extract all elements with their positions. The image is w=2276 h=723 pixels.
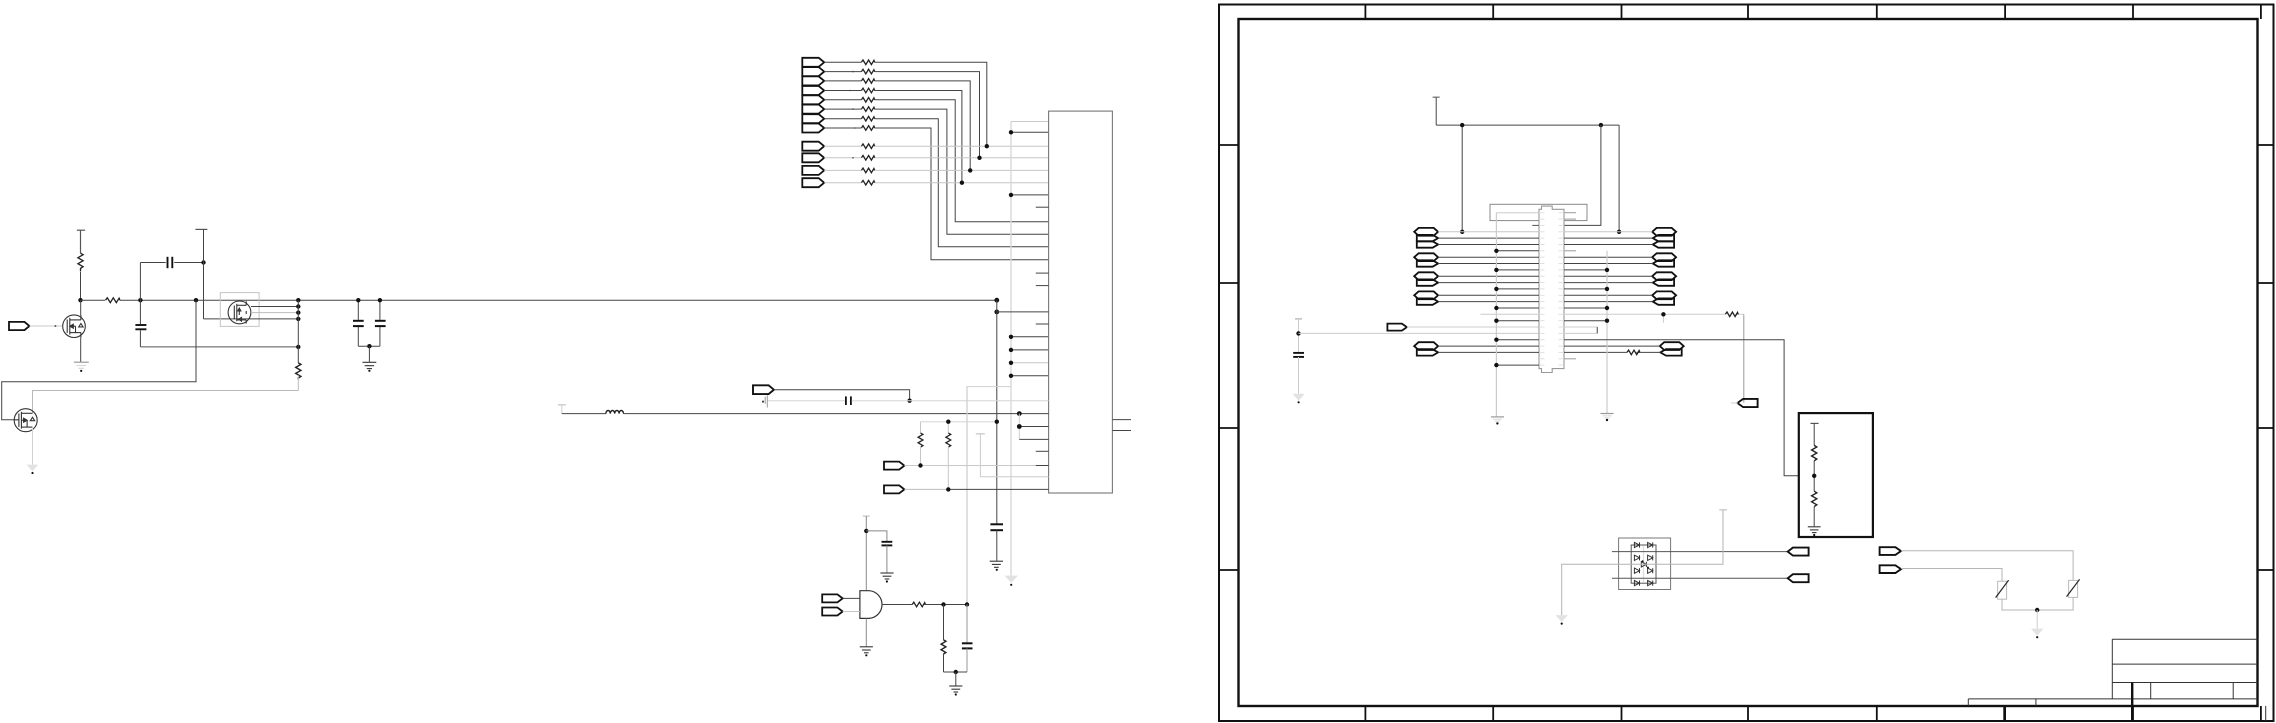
node dot C4 xyxy=(378,298,382,302)
wire gate ground pin xyxy=(865,618,867,646)
port PR5 xyxy=(1653,279,1674,285)
ground bridge (triangle) xyxy=(1556,615,1568,622)
wire net row19 to IC xyxy=(1299,332,1540,334)
ground C3C4 xyxy=(363,362,377,368)
RIGHT SHEET xyxy=(1219,5,2274,722)
wire bundle row2 xyxy=(251,306,298,308)
wire Q2 source xyxy=(32,427,34,465)
ground bus B1 xyxy=(1491,417,1504,421)
resistors R11..R22 (series) xyxy=(861,60,874,185)
power tap T9 xyxy=(1719,509,1727,511)
wire P20 to RV1 xyxy=(1901,569,2002,582)
bus B1 junction dots xyxy=(1494,249,1498,368)
wire varistor bottoms xyxy=(2002,597,2073,610)
wire C1 bottom to node column xyxy=(140,346,298,348)
port P10 xyxy=(802,153,824,162)
port P17 xyxy=(1788,548,1809,556)
wire top net xyxy=(1436,97,1619,232)
node dot3 xyxy=(201,260,205,264)
port P11 xyxy=(802,166,824,175)
wire gate Q1 xyxy=(30,325,63,327)
wire bus rows to IC xyxy=(1011,132,1049,375)
ground bus B2 xyxy=(1601,414,1614,418)
resistor R6 xyxy=(912,602,925,607)
port PA xyxy=(822,594,843,602)
IC U2 unconnected pin stubs xyxy=(1036,207,1131,451)
wire P19 to RV2 xyxy=(1901,551,2073,581)
capacitor C1 (vertical) xyxy=(139,300,141,347)
wires U4 to right ports xyxy=(1564,231,1652,233)
resistor Ra xyxy=(920,422,922,433)
border zone ticks left xyxy=(1219,145,1239,570)
wire inductor net riser xyxy=(967,387,1011,414)
wire gate output xyxy=(882,604,913,606)
transistor Q2 xyxy=(14,409,37,432)
port PR6 xyxy=(1653,298,1674,304)
wire gray return lower xyxy=(33,391,299,414)
hex port HL2 xyxy=(1414,253,1438,261)
power tap T4 xyxy=(976,433,985,435)
sheet outer border xyxy=(1219,5,2274,722)
connector U4 body xyxy=(1539,206,1564,372)
ground Q1 xyxy=(74,362,89,372)
resistor R1 xyxy=(78,253,83,271)
hex port HL1 xyxy=(1414,228,1438,236)
port P11b xyxy=(802,178,824,187)
wire P12 xyxy=(774,390,910,401)
label box LB1 xyxy=(1490,204,1587,220)
bus B2 junction dots xyxy=(1605,268,1609,323)
main rail vertical node xyxy=(994,298,999,303)
port PR3 xyxy=(1653,241,1674,247)
capacitor C2 (top, horizontal) xyxy=(140,263,203,301)
port P13 xyxy=(884,462,904,470)
wire routing P1..P4 drop onto gray rows xyxy=(875,62,987,182)
diode interconnect leads xyxy=(1643,546,1645,582)
resistor R3 xyxy=(296,363,301,378)
wires P1..P8 to resistors xyxy=(824,62,861,128)
ground varistors (triangle) xyxy=(2031,629,2044,636)
title block heavy divider xyxy=(2131,683,2133,722)
RIGHT CIRCUIT xyxy=(1292,97,2079,638)
wire output node xyxy=(924,604,967,606)
wire C5 net left xyxy=(768,400,845,402)
node dot2 xyxy=(138,298,142,302)
sheet inner border xyxy=(1239,19,2258,706)
wire R7-C10 join xyxy=(944,671,968,673)
port P18 xyxy=(1788,574,1809,582)
wire T4 riser xyxy=(980,434,1048,477)
wire branch to C9 xyxy=(866,531,887,541)
wire routing P5..P8 to IC xyxy=(875,100,1049,260)
varistor RV2 xyxy=(2069,580,2078,597)
border zone ticks top xyxy=(1365,5,2260,20)
hex port HR4 xyxy=(1652,291,1676,299)
power tap T3 xyxy=(558,404,566,406)
net row16 long wire xyxy=(1480,314,1743,323)
wire PB xyxy=(843,611,860,613)
resistor R9 xyxy=(1627,350,1640,355)
port PL4 xyxy=(1417,260,1438,266)
capacitor C9 xyxy=(882,542,893,546)
wire pin r2 riser xyxy=(1564,125,1601,225)
port P9 xyxy=(802,142,824,151)
wire ladder x1019 xyxy=(1018,414,1020,440)
net stub S1 xyxy=(765,395,767,407)
port IN1 xyxy=(9,322,30,330)
wire T5 to gate xyxy=(865,516,867,591)
junction dots rows 9-12 xyxy=(960,144,989,185)
border zone ticks bottom xyxy=(1365,706,2260,721)
node dot4 xyxy=(194,298,198,302)
gnd bus (vertical gray) xyxy=(1010,122,1012,576)
hex port HR2 xyxy=(1652,253,1676,261)
diode array inner box xyxy=(1631,545,1656,583)
wire long gray vertical to gate output xyxy=(966,387,968,604)
power tap T1 xyxy=(77,230,85,253)
ground bus (triangle) xyxy=(1005,576,1018,583)
ground U3 xyxy=(860,647,873,653)
wire rail to IC xyxy=(997,311,1049,313)
node main rail dot1 xyxy=(78,298,82,302)
resistor R7 xyxy=(943,605,945,640)
port PL5 xyxy=(1417,279,1438,285)
gnd bus B1 (left of U4) xyxy=(1495,213,1497,417)
capacitor C10 xyxy=(966,605,968,643)
U4 pin ticks xyxy=(1539,213,1564,365)
ground Q2 (triangle) xyxy=(27,465,39,472)
wire bus top to IC xyxy=(1011,121,1049,123)
resistor R10 xyxy=(1813,423,1815,445)
resistor R2 xyxy=(105,297,120,304)
bus B1 row taps xyxy=(1496,212,1539,214)
inductor L1 xyxy=(562,413,606,415)
power tap T5 (NAND) xyxy=(863,515,870,517)
port PL6 xyxy=(1417,298,1438,304)
wire resistor tops xyxy=(921,421,997,423)
port P1 xyxy=(802,58,824,67)
gnd bus B2 (right of U4) xyxy=(1606,251,1608,413)
capacitor C3 xyxy=(357,300,359,346)
label box LB2 xyxy=(1564,327,1597,333)
varistor RV1 xyxy=(1998,581,2007,599)
port P4 xyxy=(802,86,824,95)
port P12 xyxy=(753,385,774,394)
title block xyxy=(1968,639,2265,721)
hex port HL4 xyxy=(1414,291,1438,299)
wire node column xyxy=(297,300,299,363)
transistor Q3 (in package) xyxy=(228,301,251,324)
capacitor C8 xyxy=(990,524,1003,530)
wire Q1 drain xyxy=(80,300,82,315)
bus B2 row taps xyxy=(1564,270,1607,321)
LEFT PAGE xyxy=(2,229,997,474)
port PL3 xyxy=(1417,241,1438,247)
hex port HR5 xyxy=(1660,342,1684,350)
wire R3 bottom xyxy=(297,375,299,390)
port PR2 xyxy=(1653,235,1674,241)
wire gray return upper xyxy=(2,300,196,420)
wire L1 to IC xyxy=(624,413,1049,415)
port PL2 xyxy=(1417,235,1438,241)
dual mosfet package U1 box xyxy=(220,293,259,327)
port P6 xyxy=(802,105,824,114)
port P7 xyxy=(802,114,824,123)
U4 unconnected right stubs xyxy=(1564,213,1576,359)
wire C5 net right to IC xyxy=(852,400,1049,402)
resistor R8 xyxy=(1725,312,1738,317)
wire xyxy=(80,272,82,300)
power tap T7 xyxy=(1433,96,1440,98)
resistor Rb xyxy=(947,422,949,433)
port P3 xyxy=(802,76,824,85)
net label specks xyxy=(849,71,856,159)
wire bundle row3 xyxy=(251,312,298,314)
wire P13 to IC xyxy=(904,465,1035,467)
wires left ports to U4 xyxy=(1438,231,1539,233)
port P19 xyxy=(1880,547,1901,555)
port P2 xyxy=(802,67,824,76)
diode array DA1 outer box xyxy=(1619,538,1671,590)
hex port HR3 xyxy=(1652,272,1676,280)
port P8 xyxy=(802,124,824,133)
wire PA xyxy=(843,597,860,599)
port P14 xyxy=(884,485,904,493)
port PR4 xyxy=(1653,260,1674,266)
border zone ticks right xyxy=(2258,145,2274,570)
U4 unconnected left stub r2 xyxy=(1532,224,1539,226)
power tap T2 xyxy=(195,228,207,230)
port P15 xyxy=(1387,324,1407,331)
hex port HR1 xyxy=(1652,228,1676,236)
wire bundle row4 xyxy=(251,318,298,320)
wire gray rows P9..P11b to IC xyxy=(875,146,1049,183)
diodes D1..D8 xyxy=(1634,542,1652,585)
IC U2 xyxy=(1049,111,1113,493)
capacitor C5 xyxy=(846,396,851,405)
wire P15 to IC xyxy=(1407,326,1539,328)
node dot C3 xyxy=(356,298,360,302)
resistor R11 xyxy=(1812,491,1817,506)
wire bridge row A xyxy=(1612,551,1788,553)
wire main rail xyxy=(81,299,997,301)
wire T2 stem xyxy=(203,229,205,319)
wire gate U1b xyxy=(204,318,252,320)
port P16 xyxy=(1737,399,1757,407)
wire C11 node xyxy=(1298,319,1300,352)
port P5 xyxy=(802,95,824,104)
hex port HL5 xyxy=(1414,342,1438,350)
port PL7 xyxy=(1417,349,1438,355)
node column dots xyxy=(296,298,300,349)
gray net bridge xyxy=(1562,510,1723,615)
ground C8 xyxy=(990,561,1003,567)
transistor Q1 xyxy=(63,315,86,338)
port P20 xyxy=(1880,565,1901,573)
wire row 439 xyxy=(1019,438,1048,440)
hex port HL3 xyxy=(1414,272,1438,280)
resistor box B1 xyxy=(1799,413,1873,537)
power tap T8 xyxy=(1811,422,1819,424)
port PB xyxy=(822,608,843,616)
wire row 426 xyxy=(1019,426,1048,428)
ground C9 xyxy=(880,573,893,579)
gate U3 (AND) xyxy=(860,591,882,619)
wire Q1 source xyxy=(80,337,82,361)
wire C3-C4 join xyxy=(358,345,380,347)
ground R11 xyxy=(1808,527,1821,533)
bus junction dots xyxy=(1009,130,1013,378)
power tap T6 xyxy=(1295,318,1302,320)
net row20 wire to divider xyxy=(1564,340,1812,476)
wire P14 to IC xyxy=(904,488,948,490)
wire bridge row B xyxy=(1612,577,1788,579)
capacitor C11 xyxy=(1293,353,1304,357)
ground R7C10 xyxy=(949,686,962,692)
wire to ground xyxy=(2036,610,2038,629)
port PR7 xyxy=(1660,349,1681,355)
ground C11 (triangle) xyxy=(1292,394,1304,401)
capacitor C4 xyxy=(379,300,381,346)
